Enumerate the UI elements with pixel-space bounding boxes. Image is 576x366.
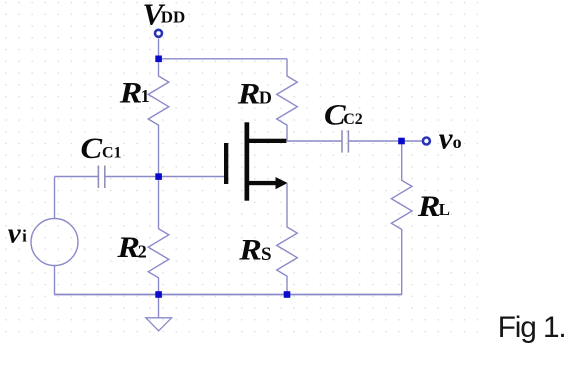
svg-text:2: 2 xyxy=(138,241,147,261)
node junction gate xyxy=(155,173,162,180)
svg-text:C1: C1 xyxy=(102,144,122,161)
resistor RD xyxy=(237,59,298,141)
label Fig 1. xyxy=(498,311,566,344)
wire bottom rail xyxy=(54,294,402,296)
ground xyxy=(146,295,172,331)
svg-text:R: R xyxy=(238,232,262,266)
resistor RL xyxy=(391,141,450,295)
output terminal vo xyxy=(423,121,462,156)
wire vi upper lead xyxy=(54,177,56,219)
svg-text:1: 1 xyxy=(141,86,150,106)
svg-text:R: R xyxy=(237,76,261,110)
node junction output xyxy=(398,138,405,145)
transistor M1 NMOS xyxy=(224,122,288,200)
wire vi lower lead xyxy=(54,266,56,295)
source vi xyxy=(8,218,78,266)
svg-text:R: R xyxy=(119,75,143,109)
svg-text:C: C xyxy=(81,131,104,165)
wire gate xyxy=(159,176,225,178)
resistor R1 xyxy=(119,59,169,177)
svg-text:i: i xyxy=(22,227,27,246)
svg-text:Fig 1.: Fig 1. xyxy=(498,311,566,344)
wire top rail xyxy=(159,58,288,60)
capacitor CC2 xyxy=(324,98,363,153)
svg-text:S: S xyxy=(261,244,272,265)
svg-text:R: R xyxy=(116,230,140,264)
node junction bottom middle xyxy=(284,291,291,298)
wire output node to terminal xyxy=(402,140,422,142)
capacitor CC1 xyxy=(81,131,122,188)
node junction top rail xyxy=(155,56,162,63)
svg-text:v: v xyxy=(8,218,22,250)
resistor RS xyxy=(238,183,297,295)
svg-text:D: D xyxy=(259,87,272,107)
power terminal VDD xyxy=(143,0,186,37)
wire CC1 to gate node xyxy=(105,176,159,178)
svg-text:L: L xyxy=(439,200,450,219)
svg-text:v: v xyxy=(439,121,454,156)
wire CC2 to output node xyxy=(348,140,401,142)
resistor R2 xyxy=(116,177,168,295)
wire drain to CC2 xyxy=(287,140,342,142)
svg-text:DD: DD xyxy=(161,7,186,26)
wire VDD terminal stub xyxy=(158,39,160,59)
svg-text:R: R xyxy=(417,189,441,223)
svg-text:o: o xyxy=(453,132,462,152)
node junction bottom left xyxy=(155,291,162,298)
wire vi to CC1 xyxy=(55,176,99,178)
svg-text:C2: C2 xyxy=(343,111,363,128)
